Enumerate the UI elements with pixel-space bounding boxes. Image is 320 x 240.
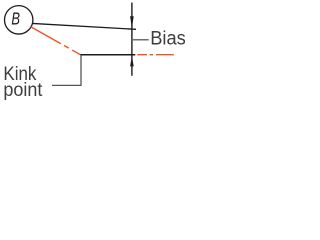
orange centerline diagonal (dash-dot) (31, 27, 80, 55)
svg-text:point: point (3, 79, 42, 101)
orange centerline horizontal dot (150, 54, 153, 56)
dimension extension vertical line (131, 3, 133, 76)
svg-text:B: B (11, 9, 20, 29)
bias leader line (132, 39, 149, 41)
lower horizontal line (from kink point) (80, 54, 135, 56)
svg-text:Bias: Bias (150, 28, 185, 50)
orange centerline horizontal dash 2 (156, 54, 174, 56)
orange centerline horizontal dash 1 (137, 54, 147, 56)
balloon leader line (sloped) (32, 23, 136, 29)
top dimension arrowhead (points down) (130, 16, 134, 28)
bottom dimension arrowhead (points up) (130, 56, 134, 67)
balloon circle B (5, 6, 33, 34)
kink point leader line (52, 55, 81, 85)
